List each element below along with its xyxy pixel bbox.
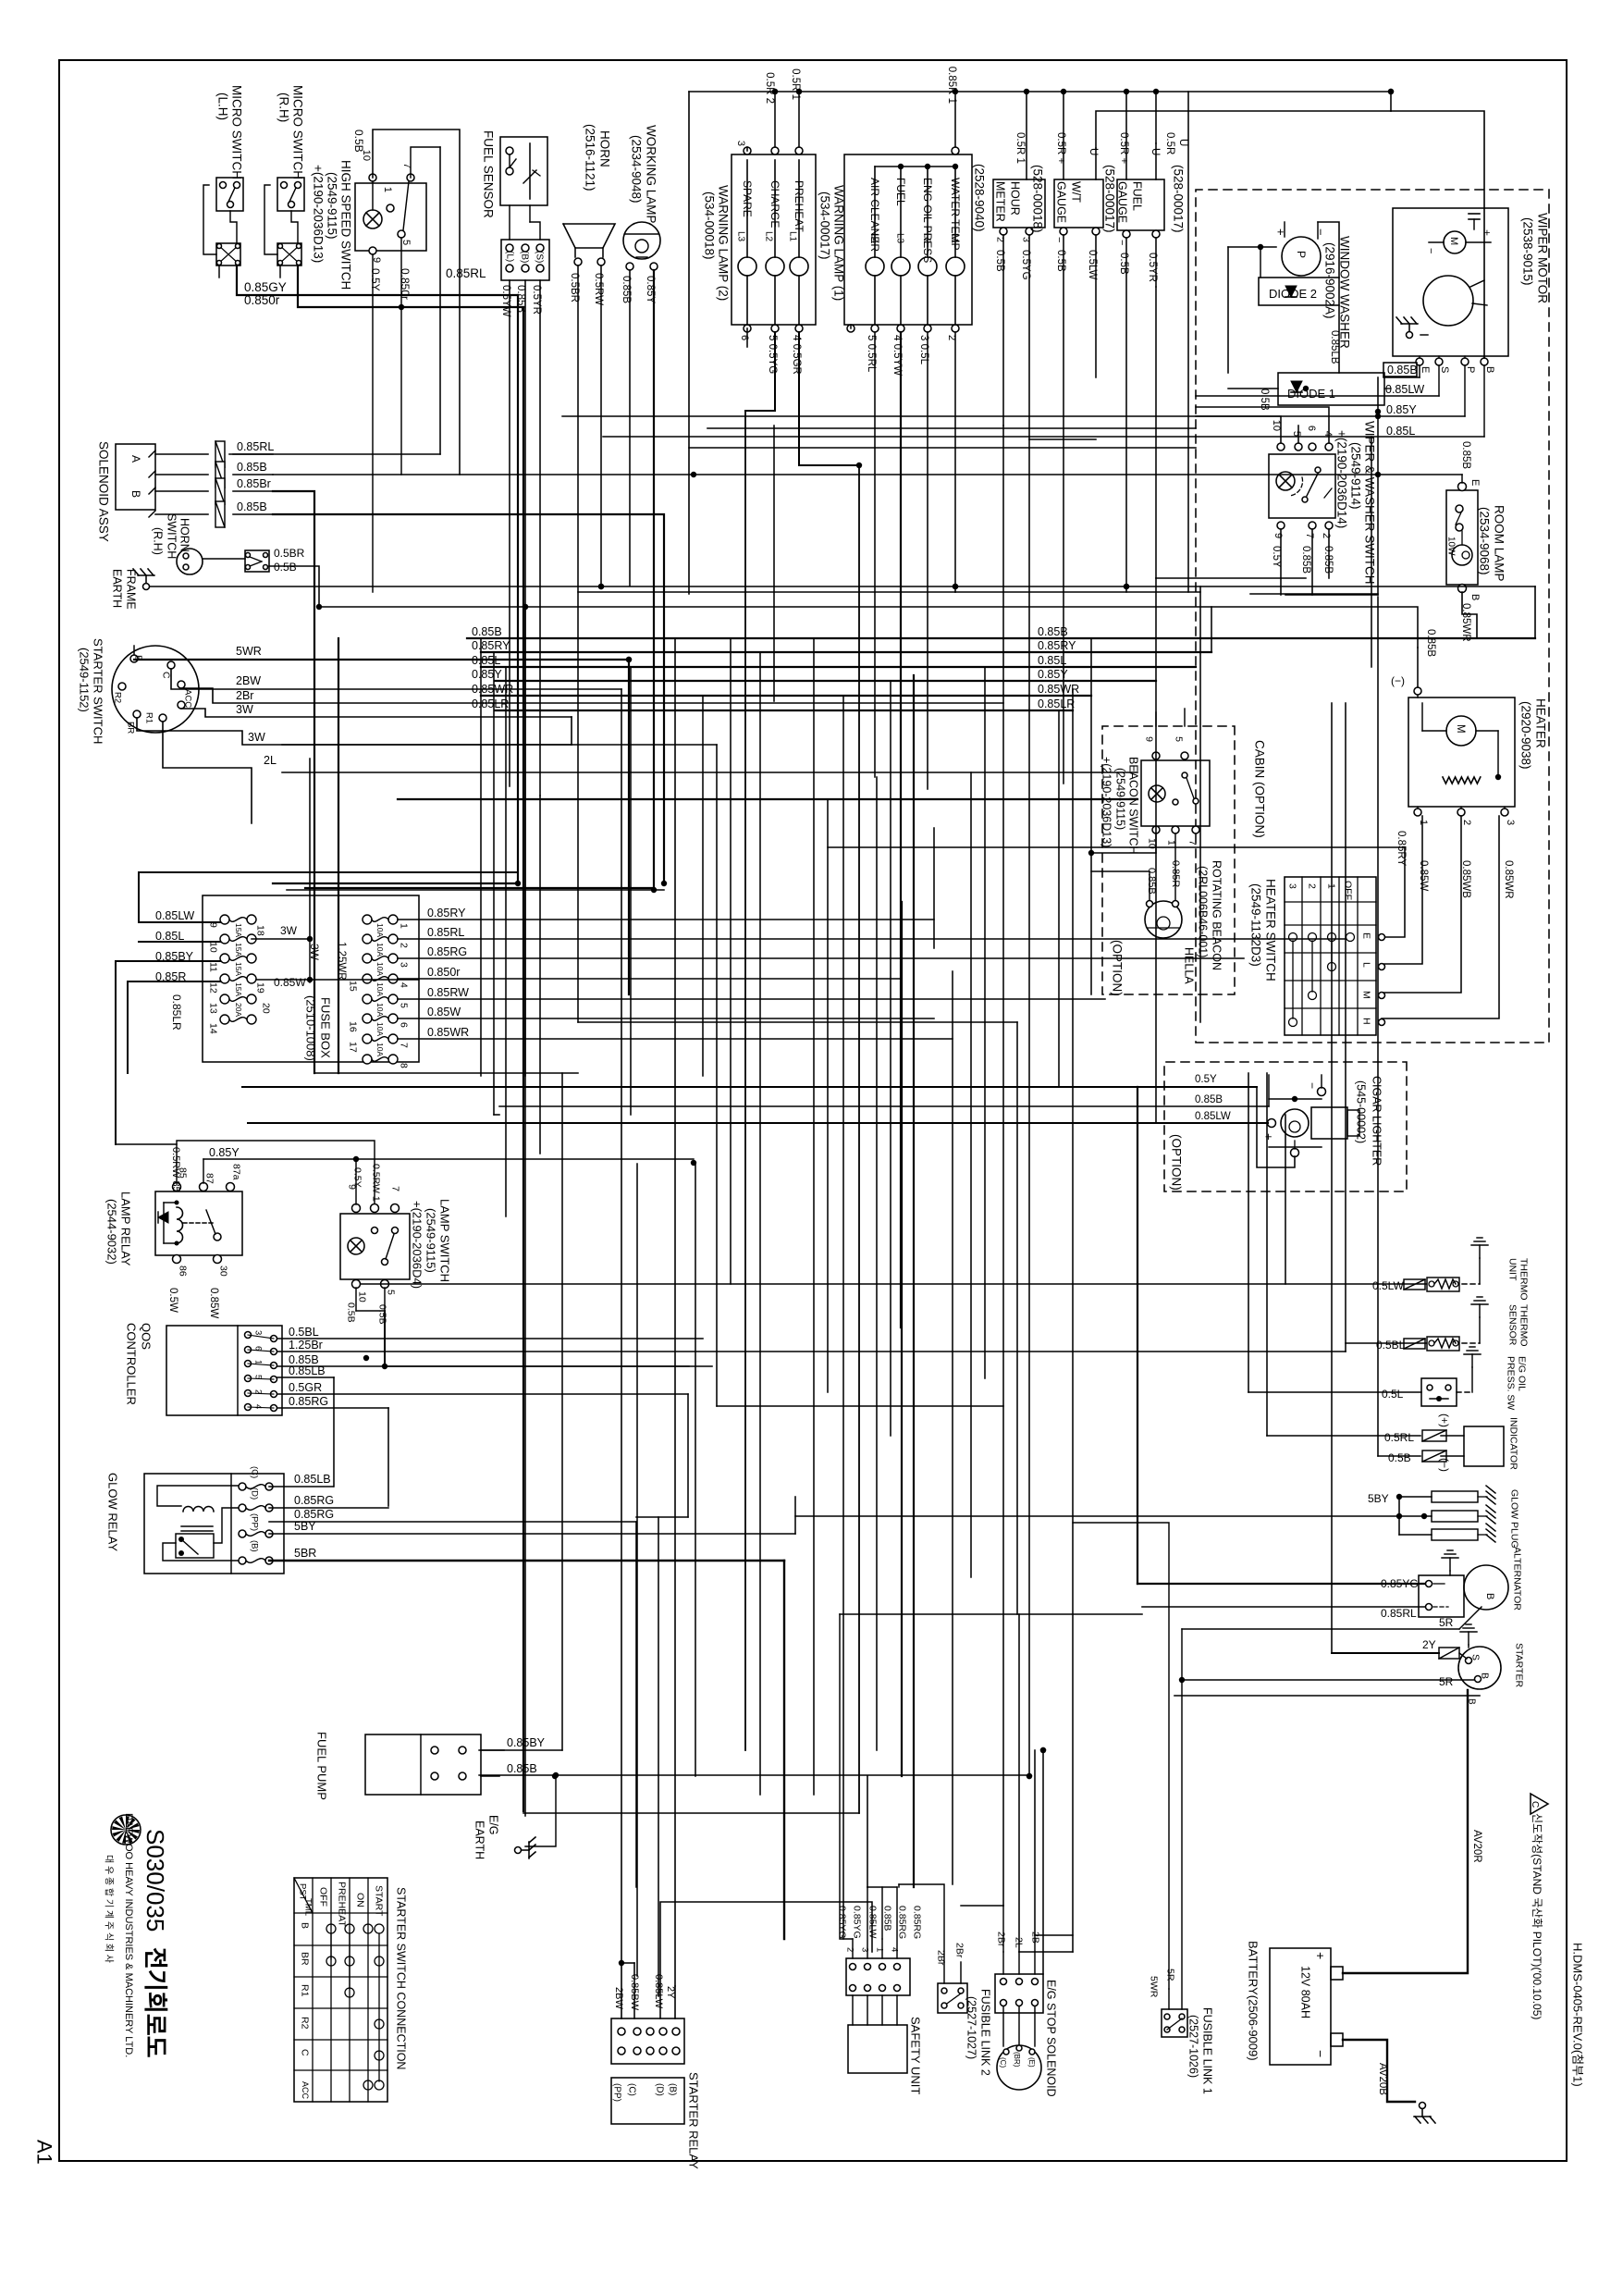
svg-text:+(2190-2036D13): +(2190-2036D13) — [1100, 757, 1113, 847]
svg-text:5WR: 5WR — [1148, 1976, 1159, 1998]
svg-text:R1: R1 — [299, 1984, 310, 1997]
svg-text:3W: 3W — [248, 731, 265, 744]
svg-text:0.850r: 0.850r — [427, 966, 460, 979]
svg-text:2BW: 2BW — [613, 1987, 624, 2009]
svg-text:10A: 10A — [375, 923, 385, 937]
svg-text:WARNING LAMP (2): WARNING LAMP (2) — [716, 185, 730, 301]
svg-text:ON: ON — [354, 1893, 365, 1907]
svg-text:R2: R2 — [113, 692, 123, 703]
svg-text:0.5B: 0.5B — [345, 1302, 356, 1323]
svg-text:OFF: OFF — [1342, 881, 1353, 900]
svg-text:0.5Y: 0.5Y — [1195, 1074, 1217, 1085]
svg-text:0.85R 1: 0.85R 1 — [946, 67, 957, 104]
svg-text:H.DMS-0405-REV.0(첨부1): H.DMS-0405-REV.0(첨부1) — [1571, 1943, 1585, 2087]
svg-text:OFF: OFF — [317, 1887, 328, 1907]
svg-text:전기회로도: 전기회로도 — [141, 1947, 169, 2058]
svg-text:1: 1 — [875, 1947, 885, 1952]
svg-text:−: − — [1306, 1082, 1319, 1089]
svg-text:0.85L: 0.85L — [1386, 425, 1415, 438]
svg-text:DAEWOO HEAVY INDUSTRIES & MACH: DAEWOO HEAVY INDUSTRIES & MACHINERY LTD. — [123, 1813, 134, 2057]
svg-text:2: 2 — [1461, 820, 1472, 825]
svg-text:(2916-9002A): (2916-9002A) — [1322, 242, 1336, 319]
svg-text:10A: 10A — [375, 982, 385, 996]
svg-text:BEACON SWITCH: BEACON SWITCH — [1127, 757, 1140, 855]
svg-text:THERMO: THERMO — [1518, 1304, 1529, 1347]
svg-text:0.85B: 0.85B — [1300, 546, 1311, 574]
svg-text:M: M — [1448, 237, 1459, 245]
svg-text:(B): (B) — [250, 1540, 260, 1552]
svg-text:ROOM LAMP: ROOM LAMP — [1492, 505, 1506, 582]
svg-text:1: 1 — [398, 923, 409, 929]
svg-text:STARTER RELAY: STARTER RELAY — [687, 2072, 701, 2169]
svg-text:(R.H): (R.H) — [152, 527, 165, 555]
svg-text:0.85LB: 0.85LB — [1329, 330, 1340, 364]
svg-text:+: + — [1481, 229, 1494, 236]
svg-text:0.85LW: 0.85LW — [155, 909, 194, 922]
svg-text:(2527-1026): (2527-1026) — [1187, 2015, 1200, 2078]
svg-text:3: 3 — [253, 1330, 264, 1335]
svg-text:0.85L: 0.85L — [155, 930, 184, 943]
svg-text:0.85B: 0.85B — [515, 285, 526, 313]
svg-text:(D): (D) — [655, 2083, 665, 2096]
svg-text:SOLENOID ASSY: SOLENOID ASSY — [96, 441, 110, 542]
svg-text:(534-00017): (534-00017) — [818, 191, 831, 260]
svg-text:0.85RG: 0.85RG — [294, 1494, 334, 1507]
svg-text:FUEL PUMP: FUEL PUMP — [315, 1732, 329, 1800]
svg-text:L3: L3 — [895, 233, 905, 244]
svg-text:STARTER SWITCH: STARTER SWITCH — [92, 638, 105, 744]
svg-text:R2: R2 — [299, 2017, 310, 2030]
svg-text:7: 7 — [1304, 533, 1315, 538]
svg-text:0.5RW 85: 0.5RW 85 — [170, 1147, 181, 1192]
svg-text:INDICATOR: INDICATOR — [1507, 1417, 1518, 1470]
svg-text:2BW: 2BW — [236, 674, 261, 687]
svg-text:MICRO SWITCH: MICRO SWITCH — [229, 85, 243, 179]
svg-text:B: B — [1469, 594, 1481, 600]
svg-text:4: 4 — [1322, 431, 1334, 437]
svg-text:EARTH: EARTH — [111, 569, 124, 608]
svg-text:(2RL006B46-001): (2RL006B46-001) — [1197, 866, 1210, 957]
svg-text:0.85WR: 0.85WR — [427, 1026, 469, 1039]
svg-text:0.85Y: 0.85Y — [209, 1146, 240, 1159]
svg-text:10A: 10A — [375, 943, 385, 957]
svg-text:6: 6 — [739, 335, 750, 340]
svg-text:HORN: HORN — [597, 130, 611, 167]
svg-text:0.85B: 0.85B — [1387, 364, 1418, 376]
svg-text:0.85B: 0.85B — [1038, 625, 1068, 638]
svg-text:0.5GR: 0.5GR — [289, 1381, 322, 1394]
svg-text:(2534-9048): (2534-9048) — [629, 135, 643, 204]
svg-text:STARTER: STARTER — [1513, 1643, 1524, 1687]
svg-text:S: S — [1469, 1654, 1481, 1660]
svg-text:0.85YG: 0.85YG — [836, 1906, 847, 1939]
svg-text:0.85B: 0.85B — [507, 1762, 537, 1775]
svg-text:LAMP SWITCH: LAMP SWITCH — [438, 1199, 452, 1282]
svg-text:0.85RY: 0.85RY — [1038, 639, 1076, 652]
svg-text:−: − — [1313, 2050, 1328, 2057]
svg-text:0.85B: 0.85B — [237, 461, 267, 474]
svg-text:(528-00018): (528-00018) — [1030, 165, 1044, 233]
svg-text:HEATER SWITCH: HEATER SWITCH — [1263, 879, 1277, 981]
svg-text:FRAME: FRAME — [125, 569, 138, 610]
svg-text:3: 3 — [1505, 820, 1516, 825]
svg-text:0.85B: 0.85B — [1460, 441, 1471, 469]
svg-text:0.85LW: 0.85LW — [867, 1906, 878, 1938]
svg-text:(−): (−) — [1391, 674, 1405, 687]
svg-text:LAMP RELAY: LAMP RELAY — [119, 1191, 133, 1266]
svg-text:(2544-9032): (2544-9032) — [105, 1199, 119, 1265]
svg-text:15A: 15A — [234, 923, 243, 937]
svg-text:0.5B: 0.5B — [1055, 250, 1066, 272]
svg-text:B: B — [1484, 366, 1495, 373]
svg-text:87a: 87a — [230, 1164, 241, 1180]
svg-text:5: 5 — [1173, 736, 1184, 742]
svg-text:(C): (C) — [250, 1466, 260, 1478]
svg-text:0.5R 2: 0.5R 2 — [764, 72, 775, 104]
svg-text:0.5Y: 0.5Y — [1271, 546, 1282, 568]
svg-text:WARNING LAMP (1): WARNING LAMP (1) — [831, 185, 845, 301]
svg-text:(2534-9068): (2534-9068) — [1477, 507, 1491, 575]
svg-text:ENG OIL PRESS: ENG OIL PRESS — [921, 178, 934, 263]
svg-text:0.85LR: 0.85LR — [1038, 697, 1075, 710]
svg-text:FUSIBLE LINK 2: FUSIBLE LINK 2 — [979, 1989, 992, 2076]
svg-text:0.5BL: 0.5BL — [289, 1326, 319, 1339]
svg-text:E: E — [1420, 366, 1431, 373]
svg-text:20: 20 — [260, 1003, 271, 1014]
svg-text:H: H — [1360, 1018, 1371, 1025]
svg-text:(2920-9038): (2920-9038) — [1518, 701, 1532, 770]
svg-text:TML: TML — [303, 1898, 314, 1916]
svg-text:C: C — [1530, 1801, 1540, 1808]
svg-text:(2516-1121): (2516-1121) — [583, 124, 596, 191]
svg-text:(2549-1152): (2549-1152) — [78, 648, 92, 712]
svg-text:(S): (S) — [535, 251, 545, 263]
svg-text:SAFETY UNIT: SAFETY UNIT — [909, 2017, 923, 2094]
svg-text:A: A — [129, 455, 142, 463]
svg-text:MICRO SWITCH: MICRO SWITCH — [290, 85, 304, 179]
svg-text:B: B — [1484, 1593, 1495, 1599]
svg-text:2Br: 2Br — [953, 1943, 965, 1958]
svg-text:0.5Y: 0.5Y — [351, 1167, 363, 1188]
svg-text:30: 30 — [217, 1265, 228, 1277]
svg-text:L3: L3 — [736, 231, 746, 242]
svg-text:대 우 종 합 기 계 주 식 회 사: 대 우 종 합 기 계 주 식 회 사 — [104, 1855, 115, 1963]
svg-text:0.85B: 0.85B — [472, 625, 502, 638]
svg-text:AV20B: AV20B — [1377, 2063, 1388, 2095]
svg-text:3: 3 — [860, 1947, 870, 1952]
svg-text:ALTERNATOR: ALTERNATOR — [1511, 1547, 1522, 1611]
svg-text:(534-00018): (534-00018) — [702, 191, 716, 260]
svg-text:5: 5 — [400, 240, 412, 245]
svg-text:1: 1 — [253, 1360, 264, 1364]
svg-text:0.85B: 0.85B — [1195, 1094, 1223, 1105]
svg-text:14: 14 — [207, 1023, 218, 1034]
svg-text:0.5L: 0.5L — [1382, 1388, 1404, 1401]
svg-text:16: 16 — [347, 1021, 358, 1032]
svg-text:WIPER MOTOR: WIPER MOTOR — [1535, 213, 1549, 303]
svg-text:+(2190-2036D13): +(2190-2036D13) — [311, 165, 325, 263]
svg-text:M: M — [1360, 991, 1371, 999]
svg-text:1: 1 — [382, 187, 393, 192]
svg-text:4: 4 — [253, 1404, 264, 1409]
svg-text:(2549-1132D3): (2549-1132D3) — [1248, 883, 1262, 967]
svg-text:B: B — [129, 490, 142, 498]
svg-text:+(2190-2036D14): +(2190-2036D14) — [1334, 430, 1348, 528]
svg-text:6: 6 — [398, 1022, 409, 1028]
svg-text:GLOW RELAY: GLOW RELAY — [106, 1473, 120, 1551]
svg-text:0.85RL: 0.85RL — [237, 440, 274, 453]
svg-text:7: 7 — [1187, 840, 1198, 846]
svg-text:CONTROLLER: CONTROLLER — [125, 1323, 139, 1405]
svg-text:CIGAR LIGHTER: CIGAR LIGHTER — [1371, 1076, 1383, 1166]
svg-text:FUSIBLE LINK 1: FUSIBLE LINK 1 — [1201, 2007, 1214, 2094]
svg-text:A1: A1 — [32, 2140, 55, 2165]
svg-text:0.85LB: 0.85LB — [294, 1473, 331, 1486]
svg-text:UNIT: UNIT — [1506, 1258, 1518, 1281]
svg-text:3W: 3W — [236, 703, 253, 716]
svg-text:(L): (L) — [505, 251, 515, 262]
svg-text:0.85L: 0.85L — [1038, 654, 1066, 667]
svg-text:(C): (C) — [999, 2057, 1007, 2068]
svg-text:6: 6 — [1306, 426, 1317, 431]
svg-text:FUEL: FUEL — [1131, 181, 1144, 211]
svg-text:(BR): (BR) — [1013, 2052, 1021, 2068]
svg-text:0.85W: 0.85W — [427, 1006, 461, 1018]
svg-text:(2538-9015): (2538-9015) — [1520, 217, 1534, 286]
svg-text:11: 11 — [207, 962, 218, 972]
svg-text:15: 15 — [347, 981, 358, 992]
svg-text:0.85RG: 0.85RG — [911, 1906, 922, 1939]
svg-text:12V 80AH: 12V 80AH — [1299, 1966, 1312, 2018]
svg-text:87: 87 — [203, 1173, 215, 1184]
svg-text:5R: 5R — [1164, 1969, 1175, 1981]
svg-text:0.85B: 0.85B — [237, 500, 267, 513]
svg-text:0.5Y: 0.5Y — [369, 268, 382, 291]
svg-text:WORKING LAMP: WORKING LAMP — [644, 125, 658, 224]
svg-text:0.85WB: 0.85WB — [1460, 860, 1471, 898]
svg-text:WIPER & WASHER SWITCH: WIPER & WASHER SWITCH — [1362, 421, 1376, 585]
svg-text:9: 9 — [1143, 736, 1154, 742]
svg-text:(528-00017): (528-00017) — [1171, 165, 1185, 233]
svg-text:0.5R +: 0.5R + — [1055, 132, 1066, 164]
svg-text:0.85LB: 0.85LB — [289, 1364, 326, 1377]
svg-text:0.85B: 0.85B — [1322, 546, 1334, 574]
svg-text:GLOW PLUG: GLOW PLUG — [1508, 1489, 1519, 1549]
svg-text:(OPTION): (OPTION) — [1169, 1134, 1183, 1191]
svg-text:10: 10 — [356, 1291, 367, 1302]
svg-text:(PP): (PP) — [612, 2083, 622, 2102]
svg-text:0.85LR: 0.85LR — [472, 697, 509, 710]
svg-text:PREHEAT: PREHEAT — [336, 1882, 347, 1927]
svg-text:0.85Br: 0.85Br — [237, 477, 271, 490]
svg-text:START: START — [373, 1885, 384, 1917]
svg-text:15A: 15A — [234, 943, 243, 957]
svg-text:0.85LW: 0.85LW — [1195, 1111, 1231, 1122]
svg-text:0.85YG: 0.85YG — [851, 1906, 862, 1939]
svg-text:0.5B: 0.5B — [352, 130, 365, 153]
svg-text:10W: 10W — [1446, 537, 1457, 556]
svg-text:5BR: 5BR — [294, 1547, 316, 1560]
svg-text:E: E — [1469, 479, 1481, 486]
svg-text:BATTERY(2506-9009): BATTERY(2506-9009) — [1246, 1941, 1260, 2061]
svg-text:2Br: 2Br — [995, 1932, 1006, 1947]
svg-text:PRESS. SW: PRESS. SW — [1505, 1356, 1516, 1410]
svg-text:0.5RW 1: 0.5RW 1 — [370, 1164, 381, 1202]
svg-text:STARTER SWITCH CONNECTION: STARTER SWITCH CONNECTION — [395, 1887, 408, 2069]
svg-text:0.85WR: 0.85WR — [1503, 860, 1514, 899]
svg-text:18: 18 — [254, 925, 265, 936]
svg-text:(OPTION): (OPTION) — [1110, 940, 1124, 996]
svg-text:CHARGE: CHARGE — [768, 180, 781, 228]
svg-text:GAUGE: GAUGE — [1055, 181, 1068, 223]
svg-text:1.25Br: 1.25Br — [289, 1339, 323, 1352]
svg-text:B: B — [299, 1922, 310, 1929]
svg-text:L1: L1 — [788, 231, 798, 242]
svg-text:0.85LR: 0.85LR — [170, 994, 183, 1031]
svg-text:15A: 15A — [234, 962, 243, 976]
svg-text:0.85Y: 0.85Y — [1038, 668, 1068, 681]
svg-text:+(2190-2036D4): +(2190-2036D4) — [411, 1201, 424, 1289]
svg-text:(R.H): (R.H) — [277, 93, 290, 122]
svg-text:BR: BR — [299, 1952, 310, 1966]
svg-text:8: 8 — [398, 1063, 409, 1068]
svg-text:0.85BY: 0.85BY — [507, 1736, 546, 1749]
svg-text:4: 4 — [890, 1947, 900, 1952]
svg-text:U: U — [1150, 148, 1161, 155]
svg-text:3: 3 — [735, 141, 746, 146]
svg-text:0.85W: 0.85W — [274, 976, 306, 989]
svg-text:0.850r: 0.850r — [399, 268, 412, 300]
svg-text:−: − — [1425, 248, 1436, 253]
svg-text:10: 10 — [207, 942, 218, 953]
svg-text:3: 3 — [398, 962, 409, 968]
svg-text:5R: 5R — [1439, 1675, 1454, 1688]
svg-text:0.5R: 0.5R — [1164, 132, 1175, 154]
svg-text:(B): (B) — [668, 2083, 678, 2095]
svg-text:FUSE BOX: FUSE BOX — [319, 997, 333, 1058]
svg-text:0.5RW: 0.5RW — [593, 273, 604, 305]
svg-text:17: 17 — [347, 1042, 358, 1053]
svg-text:0.85RY: 0.85RY — [427, 907, 466, 920]
svg-text:13: 13 — [207, 1003, 218, 1014]
svg-text:U: U — [1088, 148, 1099, 155]
svg-text:0.5B: 0.5B — [376, 1304, 387, 1325]
svg-text:SENSOR: SENSOR — [1506, 1304, 1518, 1346]
svg-text:HOUR: HOUR — [1009, 181, 1022, 216]
svg-text:0.85B: 0.85B — [1425, 629, 1436, 657]
svg-text:HEATER: HEATER — [1533, 698, 1547, 748]
svg-text:(D): (D) — [250, 1487, 260, 1500]
svg-text:L: L — [1360, 962, 1371, 968]
svg-text:E/G OIL: E/G OIL — [1516, 1356, 1527, 1391]
svg-text:2L: 2L — [264, 754, 277, 767]
svg-text:+: + — [1313, 1952, 1328, 1959]
svg-text:0.85LW: 0.85LW — [1385, 383, 1424, 396]
svg-text:0.5R +: 0.5R + — [1118, 132, 1129, 164]
svg-text:5 0.5YG: 5 0.5YG — [767, 335, 778, 374]
svg-text:0.5LW: 0.5LW — [1372, 1279, 1404, 1292]
svg-text:0.5BL: 0.5BL — [1376, 1339, 1406, 1352]
svg-text:0.5B: 0.5B — [1118, 253, 1129, 275]
svg-text:0.85RL: 0.85RL — [1381, 1607, 1417, 1620]
svg-text:(B): (B) — [520, 251, 530, 263]
svg-text:CABIN (OPTION): CABIN (OPTION) — [1252, 740, 1266, 838]
svg-text:HIGH SPEED SWITCH: HIGH SPEED SWITCH — [338, 160, 352, 290]
svg-text:0.5B: 0.5B — [1388, 1451, 1411, 1464]
svg-text:0.850r: 0.850r — [244, 293, 280, 307]
svg-text:10A: 10A — [375, 1003, 385, 1017]
svg-text:HORN: HORN — [178, 518, 191, 552]
svg-text:5: 5 — [1291, 431, 1302, 437]
svg-text:(545-00002): (545-00002) — [1355, 1080, 1368, 1143]
svg-text:0.85RY: 0.85RY — [472, 639, 510, 652]
svg-text:L2: L2 — [764, 231, 774, 242]
svg-text:THERMO: THERMO — [1518, 1258, 1529, 1301]
svg-text:0.85RW: 0.85RW — [427, 986, 469, 999]
svg-text:R1: R1 — [144, 712, 154, 723]
svg-text:0.5RL: 0.5RL — [1384, 1431, 1414, 1444]
svg-text:86: 86 — [177, 1265, 188, 1277]
svg-text:B: B — [1479, 1673, 1490, 1679]
svg-text:2: 2 — [845, 1947, 855, 1952]
svg-text:QOS: QOS — [140, 1323, 154, 1350]
svg-text:5: 5 — [385, 1290, 396, 1295]
svg-text:E/G STOP SOLENOID: E/G STOP SOLENOID — [1045, 1980, 1058, 2097]
svg-text:(−): (−) — [1438, 1458, 1451, 1472]
svg-text:5R: 5R — [1439, 1616, 1454, 1629]
svg-text:2Br: 2Br — [236, 689, 253, 702]
svg-text:(2549-9115): (2549-9115) — [424, 1208, 438, 1273]
svg-text:4 0.5GR: 4 0.5GR — [791, 335, 802, 375]
svg-text:0.85Y: 0.85Y — [1386, 403, 1417, 416]
svg-text:(+): (+) — [1438, 1413, 1451, 1427]
svg-text:3W: 3W — [280, 924, 298, 937]
svg-text:U: U — [1177, 139, 1188, 146]
svg-text:HELLA: HELLA — [1183, 947, 1196, 984]
svg-text:W/T: W/T — [1070, 181, 1083, 203]
svg-text:12: 12 — [207, 982, 218, 994]
svg-text:5BY: 5BY — [1368, 1492, 1389, 1505]
svg-text:P: P — [1465, 366, 1476, 373]
svg-text:(2549-9115): (2549-9115) — [325, 172, 338, 240]
svg-text:ACC: ACC — [183, 689, 193, 708]
svg-text:EARTH: EARTH — [473, 1821, 486, 1859]
svg-text:0.85GY: 0.85GY — [244, 280, 287, 294]
svg-text:0.85RG: 0.85RG — [896, 1906, 907, 1939]
svg-text:2: 2 — [398, 943, 409, 948]
svg-text:L2: L2 — [922, 233, 932, 244]
svg-text:P: P — [1295, 251, 1308, 258]
svg-text:9: 9 — [1273, 533, 1284, 538]
svg-text:0.85Y: 0.85Y — [472, 668, 502, 681]
svg-text:(528-00017): (528-00017) — [1102, 165, 1116, 233]
svg-text:PREHEAT: PREHEAT — [793, 180, 805, 232]
svg-text:0.85W: 0.85W — [208, 1288, 219, 1318]
svg-text:0.85RL: 0.85RL — [446, 266, 486, 280]
svg-text:0.85RG: 0.85RG — [289, 1395, 328, 1408]
svg-text:10A: 10A — [375, 962, 385, 976]
svg-text:0.5R 1: 0.5R 1 — [1014, 132, 1026, 164]
svg-text:6: 6 — [253, 1346, 264, 1351]
svg-text:(2510-1008): (2510-1008) — [304, 995, 318, 1061]
svg-text:0.5W: 0.5W — [167, 1288, 178, 1313]
svg-text:AV20R: AV20R — [1471, 1830, 1482, 1863]
svg-text:E: E — [1360, 932, 1371, 939]
svg-text:E/G: E/G — [487, 1815, 500, 1835]
svg-text:S030/035: S030/035 — [141, 1829, 169, 1932]
svg-text:0.85W: 0.85W — [1418, 860, 1429, 891]
svg-text:(C): (C) — [627, 2083, 637, 2096]
